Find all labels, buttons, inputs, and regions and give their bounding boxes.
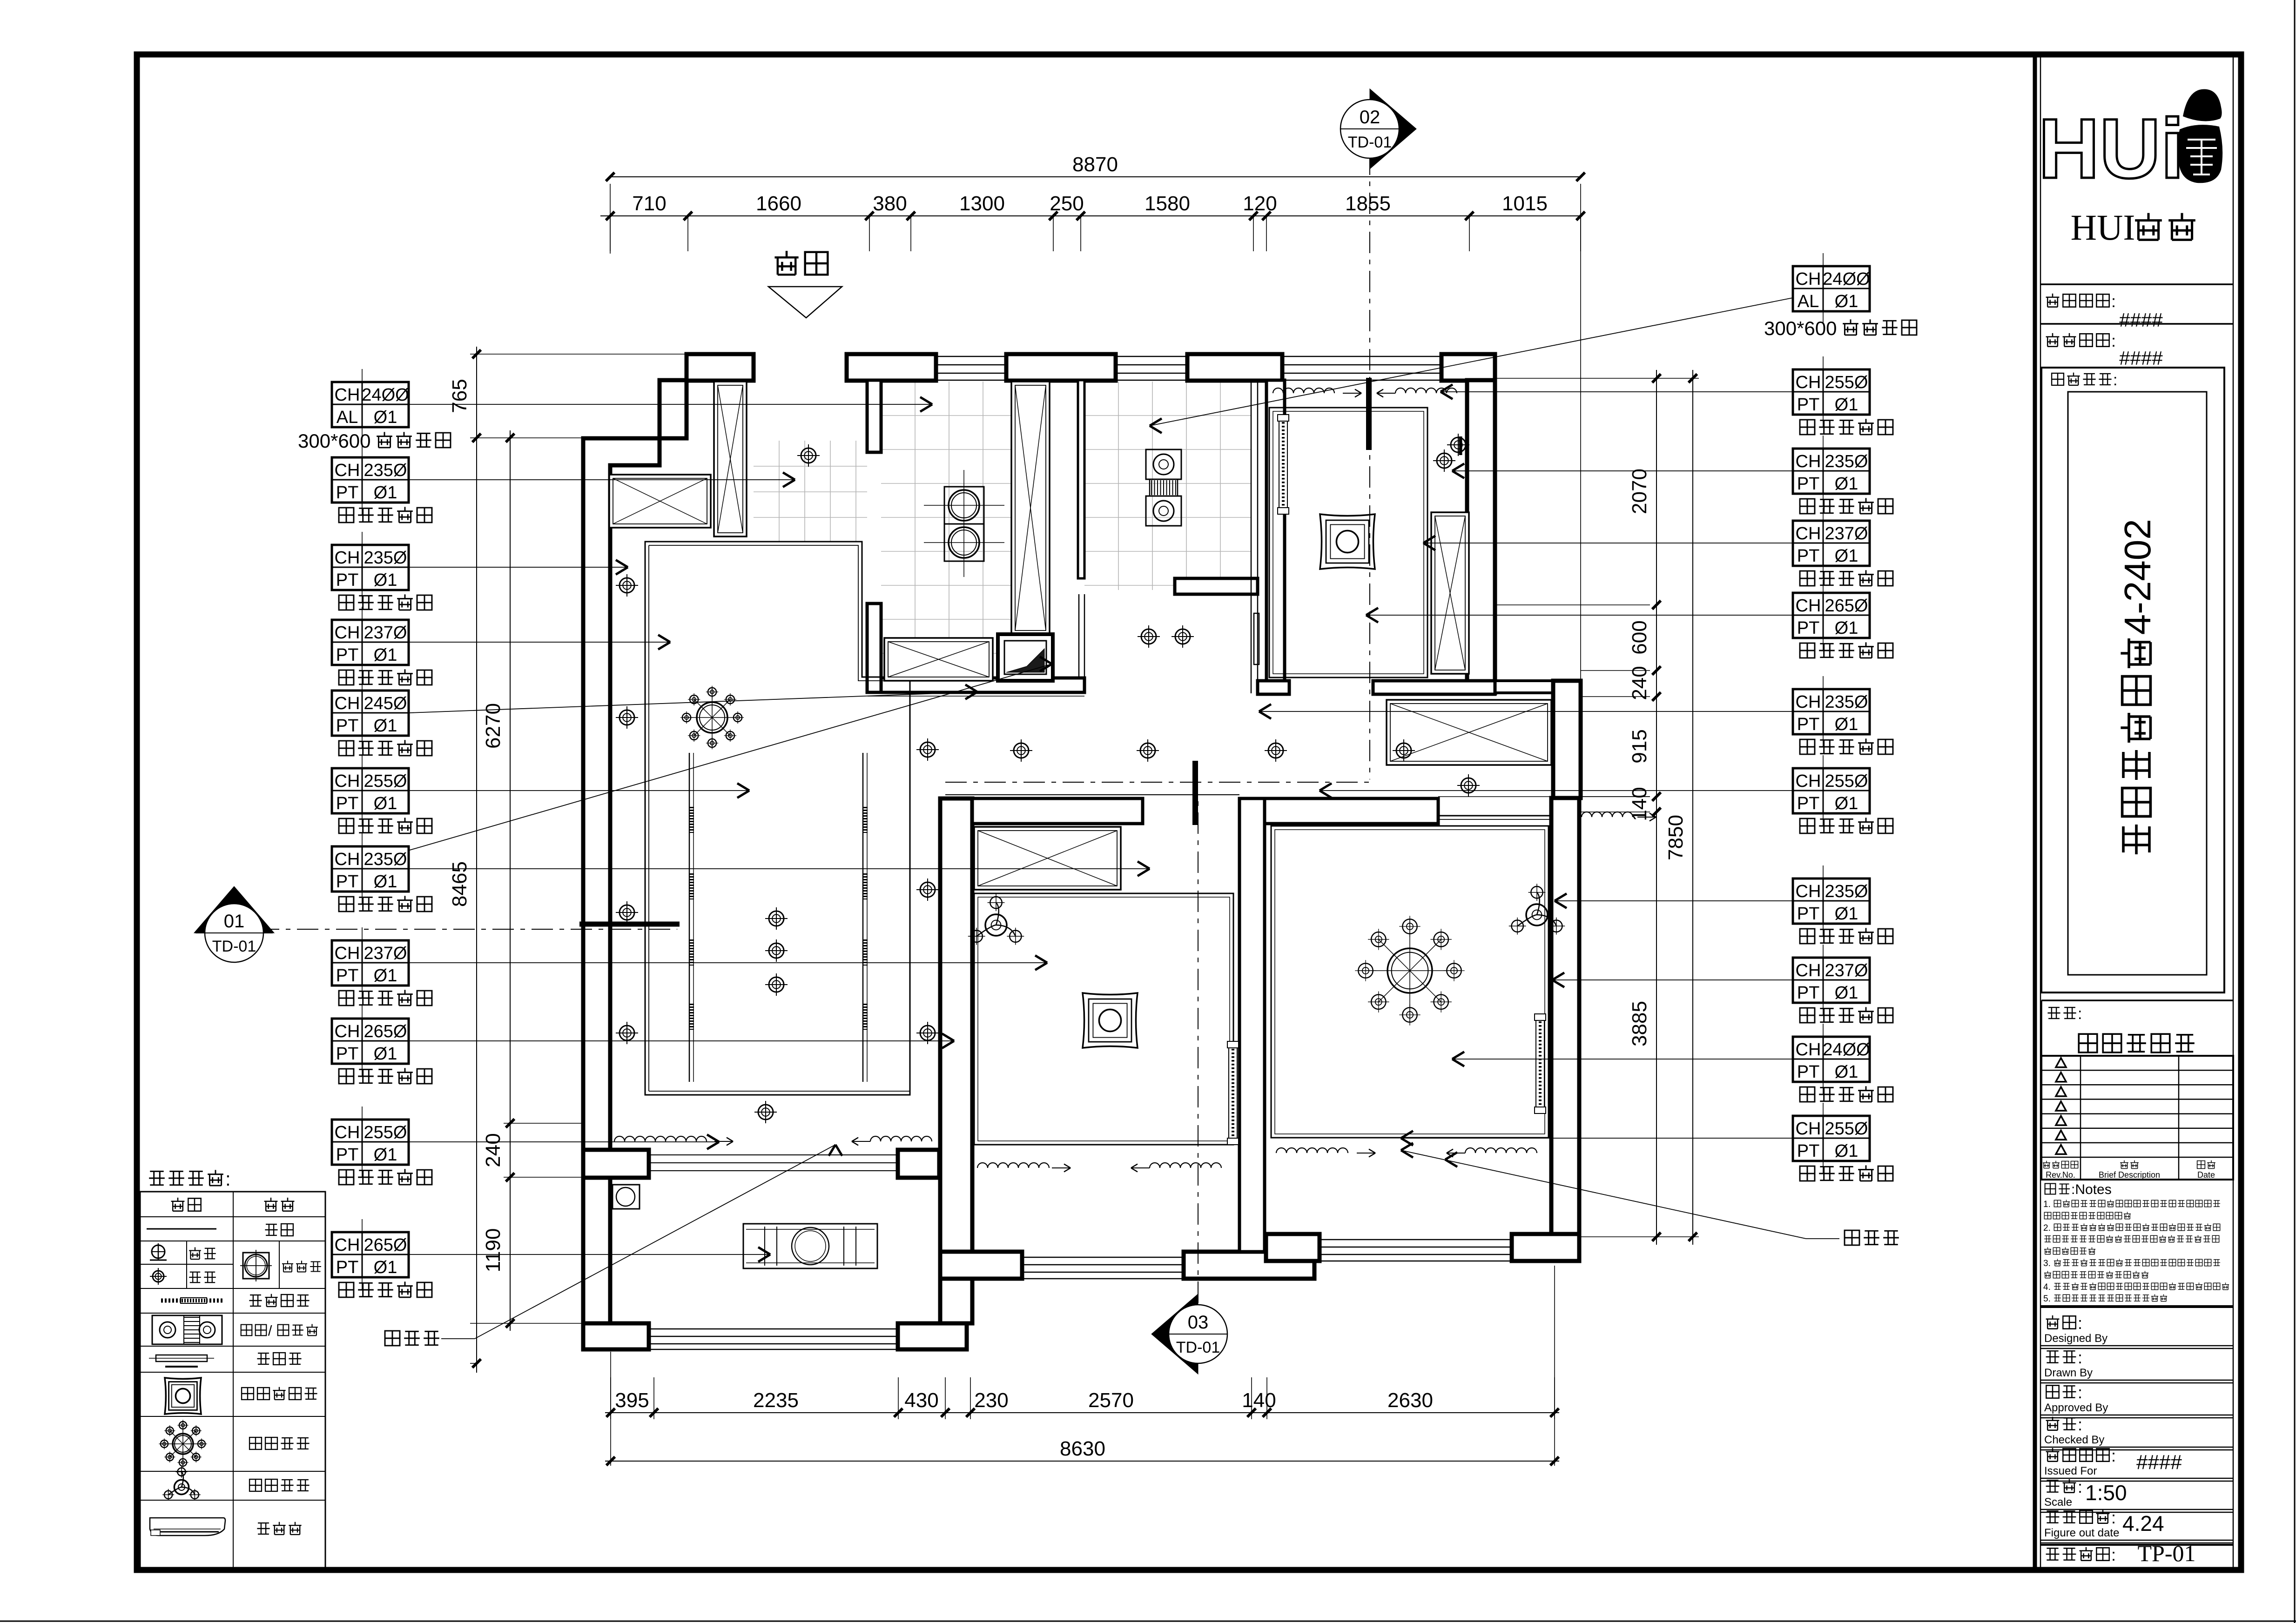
svg-text:255Ø: 255Ø: [1825, 1119, 1868, 1139]
svg-text:AL: AL: [1798, 292, 1819, 311]
Issued For row: [2046, 1448, 2060, 1462]
CH box 235Ø at y983: [332, 457, 409, 503]
right bay pier: [1553, 681, 1581, 798]
Checked By row: [2046, 1417, 2060, 1430]
svg-text:24ØØ: 24ØØ: [1823, 1040, 1870, 1060]
svg-text:237Ø: 237Ø: [364, 944, 407, 963]
svg-text:HUI: HUI: [2071, 207, 2135, 248]
svg-text::: :: [2078, 1383, 2082, 1402]
downlight: [769, 977, 784, 992]
kitchen stove circles: [944, 487, 984, 524]
svg-text:HUi: HUi: [2038, 101, 2184, 196]
svg-text:CH: CH: [335, 385, 360, 405]
top-right bedroom ceiling outline: [1269, 408, 1427, 677]
svg-text:CH: CH: [1796, 961, 1821, 980]
svg-text:235Ø: 235Ø: [364, 548, 407, 568]
bottom total dim 8630: [605, 1461, 1559, 1462]
svg-text::: :: [2111, 292, 2116, 311]
CH box 235Ø at y1888: [1793, 879, 1870, 924]
svg-text:1.: 1.: [2043, 1200, 2051, 1209]
Approved By row: [2046, 1385, 2059, 1398]
left dims 765/8465: [476, 347, 477, 1373]
svg-text:CH: CH: [335, 548, 360, 568]
left wall break mark: [579, 922, 680, 927]
svg-text:Drawn By: Drawn By: [2044, 1367, 2093, 1379]
CH box 265Ø at y2648: [332, 1232, 409, 1277]
svg-text:140: 140: [1628, 787, 1651, 821]
top total dim 8870: [610, 176, 1581, 177]
svg-text:Date: Date: [2197, 1170, 2215, 1180]
kitchen-bath divider wall: [1078, 380, 1084, 578]
shejidanwei row: [2040, 283, 2233, 285]
svg-text:CH: CH: [1796, 771, 1821, 791]
svg-text:3.: 3.: [2043, 1259, 2051, 1268]
CH box 237Ø at y1332: [332, 620, 409, 665]
svg-text::: :: [2111, 1545, 2116, 1564]
downlight with switch tick top bedroom: [1459, 436, 1462, 455]
svg-text:Ø1: Ø1: [1835, 546, 1858, 566]
svg-text:CH: CH: [335, 1123, 360, 1142]
svg-text:265Ø: 265Ø: [1825, 596, 1868, 616]
leader lines right boxes: [1441, 391, 1793, 392]
svg-text:430: 430: [904, 1389, 938, 1412]
project name box: [2041, 368, 2224, 993]
top piers: [687, 354, 754, 381]
section cut bars: [1366, 378, 1372, 450]
CH box 265Ø at y1274: [1793, 593, 1870, 638]
svg-text:TD-01: TD-01: [212, 938, 256, 955]
master bottom piers and window: [1266, 1234, 1320, 1261]
svg-text:TD-01: TD-01: [1348, 134, 1392, 151]
svg-text:TD-01: TD-01: [1176, 1339, 1220, 1356]
svg-text:Figure out date: Figure out date: [2044, 1527, 2119, 1539]
legend header: [171, 1198, 185, 1211]
svg-text:PT: PT: [1797, 715, 1820, 734]
downlight: [619, 578, 634, 593]
CH box 237Ø at y2058: [1793, 958, 1870, 1003]
svg-text:Ø1: Ø1: [374, 1258, 397, 1277]
svg-text:8870: 8870: [1072, 153, 1118, 176]
svg-text:Approved By: Approved By: [2044, 1402, 2108, 1414]
downlight: [1175, 629, 1190, 644]
svg-text:265Ø: 265Ø: [364, 1022, 407, 1041]
master right exterior wall: [1551, 798, 1579, 1234]
Drawn By row: [2046, 1351, 2060, 1362]
svg-text:03: 03: [1188, 1312, 1209, 1333]
bedroom shared wall: [1239, 798, 1265, 1252]
svg-text:235Ø: 235Ø: [364, 461, 407, 480]
svg-text:Scale: Scale: [2044, 1496, 2072, 1509]
svg-text:CH: CH: [335, 850, 360, 869]
svg-text:Ø1: Ø1: [374, 645, 397, 665]
svg-text:Ø1: Ø1: [374, 716, 397, 736]
art ceiling lamp symbol: [165, 1378, 201, 1414]
corridor ceiling lines: [868, 693, 1084, 694]
Figure out date row: [2046, 1511, 2060, 1522]
sheet number row: [2040, 1544, 2233, 1546]
svg-text:CH: CH: [1796, 882, 1821, 901]
downlight: [1140, 743, 1155, 758]
top segment dims: [600, 215, 1582, 216]
master alcove ceiling lines: [1438, 815, 1551, 817]
svg-text::: :: [2111, 1446, 2116, 1465]
svg-text:PT: PT: [336, 716, 359, 736]
svg-text:235Ø: 235Ø: [1825, 692, 1868, 712]
svg-text:237Ø: 237Ø: [364, 623, 407, 643]
entry cabinet crossed rect vertical: [714, 382, 747, 537]
right total dim 7850: [1692, 370, 1693, 1245]
svg-text:CH: CH: [1796, 524, 1821, 543]
svg-text:Rev.No.: Rev.No.: [2046, 1170, 2075, 1180]
living room bottom wall chunks: [583, 1150, 649, 1178]
svg-text:8630: 8630: [1060, 1437, 1105, 1460]
revision triangle row 7: [2056, 1145, 2066, 1154]
bath pocket door leaf: [1254, 613, 1259, 664]
section marker 3/TD-01: [1151, 1294, 1198, 1374]
wall lamp symbol: [152, 1245, 165, 1258]
svg-text:Ø1: Ø1: [1835, 794, 1858, 813]
tuming drawing name box: [2041, 999, 2233, 1001]
kitchen bottom crossed rect: [884, 638, 993, 681]
svg-text:PT: PT: [1797, 1141, 1820, 1161]
balcony piers and window: [583, 1323, 649, 1349]
svg-text:1660: 1660: [756, 192, 801, 215]
svg-text:230: 230: [974, 1389, 1008, 1412]
kitchen bottom wall: [881, 678, 1084, 692]
svg-text:255Ø: 255Ø: [364, 1123, 407, 1142]
downlight: [1451, 437, 1466, 452]
svg-text:300*600: 300*600: [298, 430, 371, 452]
entry ruhu label: [774, 251, 798, 275]
bath right wall lines: [1251, 382, 1252, 693]
CH box 235Ø at y1481: [1793, 689, 1870, 734]
bedroom1 AC crossed rect: [974, 827, 1121, 890]
svg-text:CH: CH: [1796, 373, 1821, 392]
svg-text::: :: [2078, 1348, 2082, 1367]
revision triangle row 1: [2056, 1058, 2066, 1067]
svg-text:Ø1: Ø1: [374, 872, 397, 892]
svg-text:PT: PT: [1797, 794, 1820, 813]
svg-text:####: ####: [2136, 1451, 2182, 1474]
kitchen tile grid: [915, 382, 916, 678]
svg-text:PT: PT: [336, 1258, 359, 1277]
revision table: [2041, 1056, 2233, 1180]
svg-text:Ø1: Ø1: [1835, 618, 1858, 638]
track light symbol: [161, 1299, 224, 1303]
art chandelier 8 symbol: [173, 1434, 193, 1454]
CH box 255Ø at y794: [1793, 369, 1870, 415]
svg-text:PT: PT: [1797, 618, 1820, 638]
svg-text:Ø1: Ø1: [374, 1044, 397, 1064]
CH box 235Ø at y1171: [332, 545, 409, 590]
svg-text::Notes: :Notes: [2071, 1182, 2112, 1197]
svg-text:PT: PT: [336, 483, 359, 503]
project name vertical text Aoti Shiji 4-2402: [2117, 519, 2158, 854]
svg-text:2235: 2235: [753, 1389, 799, 1412]
living ceiling track lights: [689, 753, 690, 1082]
svg-text:Ø1: Ø1: [374, 966, 397, 986]
left dims 6270/240/1190: [510, 430, 511, 1331]
svg-text::: :: [2078, 1005, 2082, 1023]
svg-text:PT: PT: [336, 570, 359, 590]
CH box 235Ø at y964: [1793, 449, 1870, 494]
band under top-right bedroom to bay: [1495, 681, 1581, 693]
svg-text:1300: 1300: [959, 192, 1005, 215]
bedroomTR wardrobe slide door: [1279, 415, 1287, 514]
CH box 24ØØ at y821: [332, 382, 409, 427]
svg-text:7850: 7850: [1664, 815, 1687, 860]
CH box 255Ø at y2398: [1793, 1116, 1870, 1161]
svg-text:1:50: 1:50: [2085, 1481, 2127, 1505]
section marker 1/TD-01: [194, 886, 274, 933]
svg-text:PT: PT: [336, 966, 359, 986]
svg-text:CH: CH: [1796, 692, 1821, 712]
svg-text:Ø1: Ø1: [1835, 292, 1858, 311]
svg-text::: :: [2078, 1314, 2082, 1333]
legend table frame: [140, 1192, 325, 1569]
svg-text:PT: PT: [336, 794, 359, 813]
bath - bedroom wall: [1266, 380, 1285, 693]
svg-text:255Ø: 255Ø: [1825, 771, 1868, 791]
Scale row: [2046, 1480, 2060, 1492]
svg-text:240: 240: [1628, 666, 1651, 700]
svg-text:CH: CH: [1796, 596, 1821, 616]
svg-text:####: ####: [2119, 347, 2163, 369]
leader lines left boxes: [409, 404, 932, 405]
top window glazing bands: [936, 356, 1006, 357]
svg-text:CH: CH: [335, 461, 360, 480]
downlight: [1437, 453, 1452, 468]
svg-text:PT: PT: [1797, 983, 1820, 1003]
revision triangle row 4: [2056, 1101, 2066, 1111]
bath tile grid: [1118, 382, 1119, 590]
downlight: [619, 710, 634, 725]
balcony window seat: [743, 1224, 877, 1268]
svg-text:Ø1: Ø1: [1835, 715, 1858, 734]
wall between balcony and bedroom1: [940, 798, 972, 1323]
svg-text::: :: [2113, 371, 2117, 389]
svg-text:265Ø: 265Ø: [364, 1235, 407, 1255]
svg-text:250: 250: [1050, 192, 1084, 215]
bottom segment dims: [605, 1412, 1559, 1413]
svg-text:235Ø: 235Ø: [364, 850, 407, 869]
svg-text:CH: CH: [335, 623, 360, 643]
axis dash-dot lines: [219, 929, 677, 930]
curtain box labels: [385, 1331, 400, 1346]
svg-text:245Ø: 245Ø: [364, 694, 407, 713]
revision triangle row 3: [2056, 1087, 2066, 1096]
CH box 24ØØ at y572: [1793, 266, 1870, 311]
CH box 265Ø at y2189: [332, 1019, 409, 1064]
sheet edge lines: [0, 1621, 2296, 1622]
svg-text:TP-01: TP-01: [2138, 1540, 2196, 1566]
svg-text:PT: PT: [1797, 546, 1820, 566]
svg-text:CH: CH: [335, 771, 360, 791]
kitchen left wall lower: [867, 604, 881, 692]
kitchen left wall upper stub: [867, 380, 881, 452]
top bedroom AC crossed rect: [1431, 512, 1469, 674]
nook AC crossed rect: [1387, 700, 1551, 765]
right exterior wall (top bedroom): [1467, 380, 1495, 693]
svg-text:24ØØ: 24ØØ: [1823, 269, 1870, 289]
downlight: [1461, 778, 1476, 793]
bath partial bottom wall: [1175, 578, 1258, 594]
entry arrow triangle: [768, 287, 842, 318]
diagonal leader to kitchen wedge: [410, 664, 1052, 850]
downlight: [758, 1105, 773, 1120]
CH box 237Ø at y2021: [332, 940, 409, 986]
svg-text:PT: PT: [336, 872, 359, 892]
downlight: [769, 911, 784, 926]
svg-text:Ø1: Ø1: [1835, 1062, 1858, 1082]
downlight: [1014, 743, 1029, 758]
title block left border: [2033, 56, 2037, 1567]
kitchen right crossed rect: [1011, 382, 1050, 634]
Designed By row: [2046, 1315, 2060, 1329]
svg-text:Ø1: Ø1: [1835, 395, 1858, 415]
svg-text:Ø1: Ø1: [1835, 904, 1858, 924]
svg-text:240: 240: [482, 1133, 505, 1167]
svg-text:PT: PT: [336, 645, 359, 665]
svg-text:Issued For: Issued For: [2044, 1465, 2097, 1477]
svg-text:237Ø: 237Ø: [1825, 524, 1868, 543]
svg-text:Ø1: Ø1: [374, 794, 397, 813]
downlight: [801, 448, 816, 463]
downlight: [153, 1271, 164, 1282]
bedroom1 bottom piers and window: [940, 1252, 1022, 1279]
svg-text:Designed By: Designed By: [2044, 1332, 2107, 1345]
svg-text:CH: CH: [335, 944, 360, 963]
svg-text:Ø1: Ø1: [374, 483, 397, 503]
svg-text:2570: 2570: [1088, 1389, 1134, 1412]
svg-text:Ø1: Ø1: [374, 408, 397, 427]
svg-text:600: 600: [1628, 620, 1651, 654]
svg-text:PT: PT: [1797, 1062, 1820, 1082]
entry tile grid: [779, 441, 780, 542]
svg-text:2.: 2.: [2043, 1223, 2051, 1233]
svg-text::: :: [225, 1168, 231, 1190]
art lamps: [1320, 514, 1375, 569]
downlight: [1268, 743, 1283, 758]
downlight: [769, 943, 784, 958]
svg-text:CH: CH: [335, 1022, 360, 1041]
notes section: [2045, 1184, 2056, 1194]
svg-text::: :: [2111, 331, 2116, 350]
CH box 245Ø at y1484: [332, 691, 409, 736]
svg-text:Ø1: Ø1: [1835, 1141, 1858, 1161]
section marker 2/TD-01: [1370, 89, 1416, 169]
bath washer symbols: [1146, 449, 1181, 479]
CH box 237Ø at y1119: [1793, 521, 1870, 566]
svg-text:1855: 1855: [1345, 192, 1391, 215]
CH box 255Ø at y1651: [1793, 768, 1870, 813]
bedroom1 slide door: [1229, 1041, 1237, 1145]
svg-text::: :: [2078, 1477, 2082, 1496]
diagonal leader right CH2400 to bath: [1150, 298, 1793, 426]
svg-text:1190: 1190: [482, 1228, 505, 1273]
svg-text:1580: 1580: [1145, 192, 1190, 215]
svg-text:235Ø: 235Ø: [1825, 452, 1868, 471]
svg-text:24ØØ: 24ØØ: [362, 385, 409, 405]
svg-text:140: 140: [1242, 1389, 1276, 1412]
svg-text:4.24: 4.24: [2122, 1511, 2164, 1536]
right dims segmented: [1656, 370, 1657, 1245]
svg-text:PT: PT: [1797, 395, 1820, 415]
svg-text:765: 765: [448, 379, 471, 413]
svg-text:Ø1: Ø1: [1835, 474, 1858, 494]
svg-text:4.: 4.: [2043, 1282, 2051, 1292]
bath heater symbol: [152, 1315, 222, 1344]
svg-text:CH: CH: [1796, 1040, 1821, 1060]
svg-text:380: 380: [873, 192, 907, 215]
svg-text:2630: 2630: [1387, 1389, 1433, 1412]
downlight: [619, 1026, 634, 1040]
downlight: [920, 882, 935, 897]
svg-text::: :: [2111, 1508, 2116, 1527]
flat panel lamp symbol: [243, 1253, 269, 1279]
svg-text:255Ø: 255Ø: [1825, 373, 1868, 392]
revision triangle row 5: [2056, 1116, 2066, 1125]
HUI logo stamp: [2183, 89, 2222, 121]
master slide door: [1536, 1014, 1544, 1113]
svg-text:/: /: [268, 1322, 272, 1339]
bedroom1 ceiling outline: [974, 893, 1233, 1145]
entry crossed rect horizontal: [609, 475, 711, 528]
svg-text:4-2402: 4-2402: [2117, 519, 2158, 635]
bedroom TR bottom wall chunks: [1258, 681, 1289, 694]
revision header: [2043, 1161, 2050, 1168]
svg-text:Ø1: Ø1: [374, 570, 397, 590]
svg-text::: :: [2078, 1415, 2082, 1434]
downlight: [1396, 743, 1411, 758]
svg-text:Brief Description: Brief Description: [2099, 1170, 2160, 1180]
living room ceiling outline: [645, 542, 910, 1095]
downlight: [920, 1026, 935, 1040]
svg-text:PT: PT: [1797, 474, 1820, 494]
CH box 24ØØ at y2228: [1793, 1037, 1870, 1082]
svg-text:300*600: 300*600: [1764, 317, 1837, 339]
svg-text:255Ø: 255Ø: [364, 771, 407, 791]
svg-text:915: 915: [1628, 729, 1651, 763]
CH box 255Ø at y2406: [332, 1120, 409, 1165]
downlight: [619, 905, 634, 920]
svg-text:8465: 8465: [448, 861, 471, 907]
svg-text:CH: CH: [1796, 452, 1821, 471]
balcony door threshold lines: [649, 1154, 898, 1155]
kitchen corner black wedge box: [998, 634, 1053, 681]
svg-text:02: 02: [1360, 107, 1380, 127]
bath door jamb lines: [1078, 594, 1080, 693]
revision triangle row 2: [2056, 1073, 2066, 1082]
legend title tianhua tuli: [149, 1171, 165, 1185]
svg-text:PT: PT: [336, 1145, 359, 1165]
svg-text:235Ø: 235Ø: [1825, 882, 1868, 901]
svg-text:Ø1: Ø1: [374, 1145, 397, 1165]
svg-text:237Ø: 237Ø: [1825, 961, 1868, 980]
corridor bottom wall / bedroom tops: [972, 798, 1143, 824]
CH box 255Ø at y1651: [332, 768, 409, 813]
svg-text:PT: PT: [336, 1044, 359, 1064]
svg-text:####: ####: [2119, 309, 2163, 331]
jianshedanwei row: [2046, 333, 2060, 347]
svg-text:CH: CH: [1796, 269, 1821, 289]
curtain boxes: [1273, 388, 1334, 393]
art chandelier 3 symbol: [174, 1480, 189, 1494]
svg-text:3885: 3885: [1628, 1001, 1651, 1046]
svg-text:710: 710: [632, 192, 666, 215]
svg-text:5.: 5.: [2043, 1294, 2051, 1304]
svg-text:CH: CH: [1796, 1119, 1821, 1139]
